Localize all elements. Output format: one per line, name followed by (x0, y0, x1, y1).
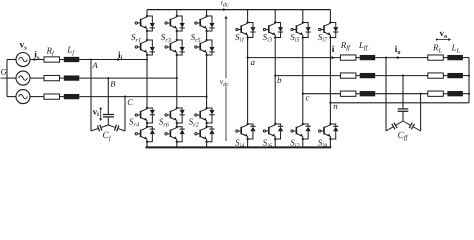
wire rail to S_i3 (274, 10, 276, 23)
wire cap middle to star point (402, 111, 404, 121)
resistor R_ff phase a (340, 55, 356, 60)
IGBT S_r6 lower device (165, 126, 185, 143)
wire rail to S_i7 (329, 10, 331, 23)
IGBT S_i6 (263, 123, 283, 140)
wire R_L to L_L phase a (443, 57, 447, 59)
node a tap (247, 57, 249, 59)
IGBT S_i8 (319, 123, 339, 140)
wire cap lead phase a (385, 58, 387, 131)
svg-text:Lff: Lff (358, 40, 369, 52)
IGBT S_i5 (291, 21, 311, 38)
wire R_f to L_f phase 1 (60, 59, 64, 61)
resistor R_f phase 2 (44, 75, 60, 80)
wire R_L to L_L phase b (443, 75, 447, 77)
node A junction (90, 58, 92, 60)
IGBT S_i1 (236, 21, 256, 38)
IGBT S_r2 lower device (195, 126, 215, 143)
wire source to R_f phase 1 (30, 59, 44, 61)
svg-text:Si3: Si3 (263, 32, 272, 44)
wire n (4th leg to load star) (330, 102, 469, 104)
svg-text:Cff: Cff (398, 131, 409, 142)
capacitor C_f right (slanted) (108, 125, 125, 132)
svg-text:B: B (110, 79, 115, 89)
wire R_ff to L_ff phase c (356, 93, 360, 95)
wire inverter leg c midsection (302, 38, 304, 125)
wire source to R_f phase 3 (30, 96, 44, 98)
node n tap (329, 102, 331, 104)
wire L_ff to load phase a (375, 57, 428, 59)
wire phase a inverter to R_ff (248, 57, 341, 59)
svg-text:Rf: Rf (46, 45, 56, 57)
wire R_L to L_L phase c (443, 93, 447, 95)
inductor L_ff phase c (360, 91, 376, 96)
inductor L_ff phase a (360, 55, 376, 60)
wire L_L to star point phase c (463, 93, 469, 95)
wire cap lead phase c (420, 94, 422, 131)
wire between series devices leg A (146, 31, 148, 40)
svg-text:vs: vs (20, 41, 28, 52)
wire between series devices low leg A (146, 123, 148, 127)
wire leg C midsection (206, 55, 208, 108)
wire R_ff to L_ff phase a (356, 57, 360, 59)
wire bus to source phase 1 (7, 59, 16, 61)
AC source v_s phase 3 (16, 90, 30, 104)
inductor L_f phase 1 (64, 57, 80, 62)
wire L_ff to load phase c (375, 93, 428, 95)
wire rail to S_i5 (302, 10, 304, 23)
IGBT S_r1 upper device (135, 15, 155, 32)
wire cap lead phase b upper (402, 76, 404, 109)
wire leg A midsection (146, 55, 148, 108)
current arrow i (332, 56, 335, 59)
ground tick on bus (1, 77, 8, 79)
voltage arrow v_o (436, 38, 451, 41)
svg-text:i: i (332, 45, 335, 55)
wire inverter leg n midsection (329, 38, 331, 125)
IGBT S_rr6 upper device (165, 107, 185, 124)
node leg B phase tap (176, 77, 178, 79)
capacitor C_ff right (slanted) (403, 121, 421, 131)
IGBT S_rr2 upper device (195, 107, 215, 124)
wire cap lead phase 3 (node C down) (124, 97, 126, 131)
inductor L_L phase a (447, 55, 463, 60)
wire between series devices leg B (176, 31, 178, 40)
DC positive rail (top) (147, 9, 330, 11)
node star b (468, 75, 470, 77)
wire between series devices low leg B (176, 123, 178, 127)
IGBT S_r1 lower device (135, 39, 155, 56)
node leg C phase tap (206, 96, 208, 98)
node star c (468, 93, 470, 95)
IGBT S_rr4 upper device (135, 107, 155, 124)
wire cap middle to star point (107, 117, 109, 125)
inductor L_f phase 2 (64, 75, 80, 80)
resistor R_L phase c (428, 91, 444, 96)
svg-text:G: G (1, 67, 7, 77)
resistor R_f phase 3 (44, 94, 60, 99)
wire R_ff to L_ff phase b (356, 75, 360, 77)
resistor R_L phase a (428, 55, 444, 60)
svg-text:C: C (127, 97, 133, 107)
IGBT S_r4 lower device (135, 126, 155, 143)
AC source v_s phase 2 (16, 71, 30, 85)
wire inverter leg c to bottom rail (302, 139, 304, 147)
svg-text:Sr3: Sr3 (161, 32, 171, 44)
wire leg B midsection (176, 55, 178, 108)
resistor R_f phase 1 (44, 57, 60, 62)
DC negative rail (bottom) (146, 146, 332, 148)
resistor R_L phase b (428, 73, 444, 78)
wire inverter leg a to bottom rail (247, 139, 249, 147)
node filter cap tap phase b (402, 75, 404, 77)
wire rail to S_i1 (247, 10, 249, 23)
node leg A phase tap (146, 58, 148, 60)
resistor R_ff phase c (340, 91, 356, 96)
svg-text:vi: vi (93, 106, 100, 118)
node C junction (124, 96, 126, 98)
svg-text:b: b (277, 75, 282, 85)
svg-text:Sr5: Sr5 (191, 32, 201, 44)
generator bus G (vertical wire) (6, 60, 8, 97)
node c tap (302, 93, 304, 95)
wire rail to S_r upper leg A (146, 10, 148, 16)
svg-text:Si1: Si1 (235, 32, 244, 44)
svg-text:A: A (92, 60, 99, 70)
wire inverter leg a midsection (247, 38, 249, 125)
wire L_f to rectifier leg phase 2 (79, 77, 177, 79)
current arrow i_o (397, 56, 400, 59)
svg-text:Sr6: Sr6 (159, 117, 170, 129)
node filter cap tap phase c (420, 93, 422, 95)
current arrow i_i (117, 58, 120, 61)
svg-text:io: io (395, 45, 401, 56)
wire bus to source phase 2 (7, 77, 16, 79)
svg-text:vdc: vdc (220, 77, 230, 88)
wire rail to S_r upper leg B (176, 10, 178, 16)
wire between series devices leg C (206, 31, 208, 40)
IGBT S_r3 upper device (165, 15, 185, 32)
wire inverter leg n to bottom rail (329, 139, 331, 147)
IGBT S_i3 (263, 21, 283, 38)
IGBT S_i4 (236, 123, 256, 140)
IGBT S_r5 upper device (195, 15, 215, 32)
svg-text:LL: LL (451, 43, 461, 55)
wire phase b inverter to R_ff (275, 75, 340, 77)
load star vertical wire (468, 58, 470, 103)
wire between series devices low leg C (206, 123, 208, 127)
wire phase c inverter to R_ff (303, 93, 341, 95)
node filter cap tap phase a (385, 57, 387, 59)
wire leg A to bottom rail (146, 142, 148, 148)
IGBT S_i7 (319, 21, 339, 38)
wire inverter leg b midsection (274, 38, 276, 125)
svg-text:Sr1: Sr1 (131, 32, 141, 44)
svg-text:idc: idc (221, 0, 229, 8)
svg-text:Sr4: Sr4 (129, 117, 139, 129)
inductor L_L phase b (447, 73, 463, 78)
svg-text:RL: RL (432, 43, 443, 55)
wire leg C to bottom rail (206, 142, 208, 148)
svg-text:Si5: Si5 (290, 32, 299, 44)
wire L_f to rectifier leg phase 1 (79, 59, 147, 61)
wire R_f to L_f phase 2 (60, 77, 64, 79)
resistor R_ff phase b (340, 73, 356, 78)
wire inverter leg b to bottom rail (274, 139, 276, 147)
wire cap lead phase 2 (node B down) (107, 78, 109, 114)
node b tap (274, 75, 276, 77)
svg-text:vo: vo (440, 28, 448, 40)
wire rail to S_r upper leg C (206, 10, 208, 16)
inductor L_L phase c (447, 91, 463, 96)
wire L_f to rectifier leg phase 3 (79, 96, 206, 98)
wire bus to source phase 3 (7, 96, 16, 98)
current arrow i_dc (223, 8, 226, 11)
wire L_ff to load phase b (375, 75, 428, 77)
capacitor C_f middle plates (103, 115, 114, 117)
svg-text:Sr2: Sr2 (189, 117, 200, 129)
capacitor C_ff middle plates (398, 109, 409, 111)
current arrow i_s (34, 58, 37, 61)
wire R_f to L_f phase 3 (60, 96, 64, 98)
svg-text:Cf: Cf (103, 131, 112, 142)
wire L_L to star point phase b (463, 75, 469, 77)
wire L_L to star point phase a (463, 57, 469, 59)
svg-text:Lf: Lf (66, 45, 75, 57)
IGBT S_r3 lower device (165, 39, 185, 56)
inductor L_f phase 3 (64, 94, 80, 99)
svg-text:a: a (251, 57, 256, 67)
AC source v_s phase 1 (16, 53, 30, 67)
IGBT S_i2 (291, 123, 311, 140)
inductor L_ff phase b (360, 73, 376, 78)
wire leg B to bottom rail (176, 142, 178, 148)
voltage arrow v_dc (225, 16, 228, 141)
wire cap lead phase 1 (node A down) (90, 60, 92, 132)
capacitor C_ff left (slanted) (386, 121, 403, 131)
node B junction (107, 77, 109, 79)
voltage arrow v_i (99, 108, 102, 121)
IGBT S_r5 lower device (195, 39, 215, 56)
capacitor C_f left (slanted) (91, 125, 108, 132)
svg-text:Rff: Rff (340, 40, 351, 52)
wire source to R_f phase 2 (30, 77, 44, 79)
